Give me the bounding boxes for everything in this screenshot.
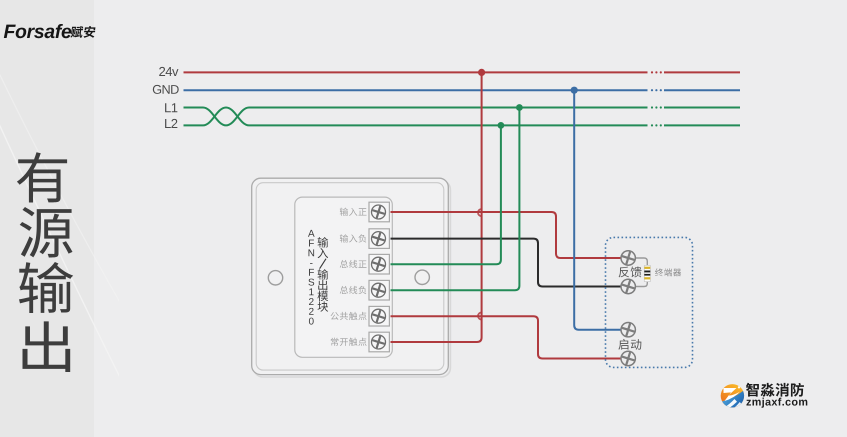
- terminal 总线负: [369, 280, 389, 300]
- wire 公共触点 to 启动-: [391, 316, 622, 358]
- resistor 终端器 body: [644, 265, 650, 281]
- wire hop bumps on 24v drop: [478, 209, 482, 320]
- terminal 反馈-: [621, 279, 635, 293]
- terminal 启动+: [621, 323, 635, 337]
- junction dot L1: [516, 104, 523, 111]
- wire L1 bus with twist: [184, 108, 741, 126]
- wire GND bus: [184, 89, 741, 91]
- junction dot GND: [571, 87, 578, 94]
- watermark 智淼消防: [746, 383, 804, 397]
- label 反馈: [619, 266, 642, 277]
- watermark logo icon: [718, 382, 746, 414]
- label 总线负: [340, 286, 367, 294]
- wire GND to 启动+: [574, 90, 621, 330]
- Forsafe logo: [4, 24, 71, 38]
- bus labels: [159, 67, 178, 76]
- module mounting hole left: [268, 271, 282, 285]
- label 启动: [618, 339, 641, 350]
- wire 24v drop to 常开触点: [391, 72, 482, 342]
- terminal 输入正: [369, 202, 389, 222]
- terminal 反馈+: [621, 251, 635, 265]
- module inner panel: [295, 197, 393, 357]
- junction dot 24v: [478, 69, 485, 76]
- wire L2 bus with twist: [184, 108, 741, 126]
- dashed device box: [606, 237, 693, 367]
- module AFN-FS1220 outer plate: [252, 178, 451, 377]
- label 公共触点: [331, 312, 367, 320]
- label AFN-FS1220: [308, 230, 315, 237]
- label 输入/输出模块: [317, 237, 328, 312]
- wire 输入正 to 反馈+: [391, 212, 622, 258]
- label 总线正: [340, 260, 367, 268]
- wire 总线正 to L2: [391, 125, 501, 264]
- watermark zmjaxf.com: [746, 398, 807, 408]
- terminal 总线正: [369, 254, 389, 274]
- label 输入负: [340, 234, 367, 242]
- terminal 公共触点: [369, 306, 389, 326]
- module mounting hole right: [415, 270, 429, 284]
- wire 输入负 to 反馈-: [391, 239, 622, 287]
- label 输入正: [340, 208, 367, 216]
- terminal 常开触点: [369, 332, 389, 352]
- wire 24v bus: [184, 71, 741, 73]
- terminal 启动-: [621, 351, 635, 365]
- label 终端器: [655, 268, 681, 276]
- resistor 终端器 bracket: [635, 258, 647, 287]
- wire 总线负 to L1: [391, 108, 520, 291]
- label 常开触点: [331, 338, 367, 346]
- junction dot L2: [498, 122, 505, 129]
- title 有源输出: [17, 152, 73, 372]
- terminal 输入负: [369, 229, 389, 249]
